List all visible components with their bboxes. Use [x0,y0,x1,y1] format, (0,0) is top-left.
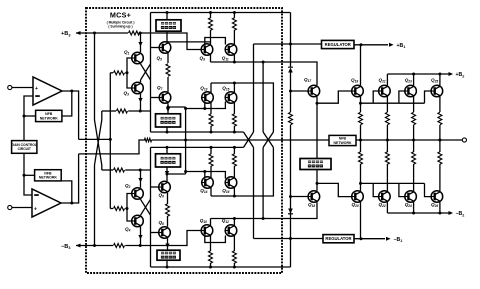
node Q17 emitter branch [316,102,319,105]
wire bias column to diode 2 [290,197,292,209]
node Q10 collector resistor [209,266,212,269]
output terminal [462,138,466,142]
node A2 output [70,202,73,205]
arrowhead -B1 [386,237,391,241]
svg-text:+: + [35,86,38,92]
node pair4 rail bias column [262,217,265,220]
wire Q18 emitter to Q20 base [317,183,352,196]
wire Q21 collector [386,74,388,85]
wire Q21 emitter [386,97,388,112]
wire A1 inverting input loop [24,96,33,141]
node Q18 emitter branch [316,182,319,185]
wire -B3 crossover to upper cascode bias [95,111,102,246]
wire Q10 collector column [210,263,212,267]
wire Q18 base [291,196,309,198]
wire Q25 emitter to rail [439,125,441,140]
wire crossover 263 upper [262,62,264,132]
node lower pair bases [126,207,129,210]
wire Q9-Q11 base link [205,38,226,46]
resistor Q24 emitter [412,152,416,164]
wire Q17 emitter to bias box right [316,103,318,158]
op-amp A2 (bottom input amplifier) [32,189,61,217]
wire Q11 emitter [233,54,235,62]
wire Q19 collector to +B1 [360,45,362,86]
node Q9 collector resistor [209,11,212,14]
wire Q25 collector [439,74,441,85]
wire input2 to op-amp A2 [12,207,32,209]
emitter arrow Q7 [166,108,170,113]
wire gain box to lower node [23,153,25,175]
node output Q23 column [412,139,415,142]
wire Q11 collector column [233,13,235,19]
wire crossover 263 lower [262,147,264,218]
node -B3 after resistor [139,244,142,247]
input terminal J1 (top) [8,85,12,89]
transistor Q14 [202,177,214,189]
wire bias box to Q6 [166,167,168,182]
node Q25 +B2 [438,73,441,76]
wire bias vertical 185.6 [185,107,187,174]
MCS+ dashed enclosure [86,8,282,273]
resistor Q22 emitter [385,152,389,164]
wire Q16 emitter [233,166,235,178]
node Q3 collector [139,110,142,113]
wire Q3 top lead [140,80,142,82]
svg-text:+: + [34,206,37,212]
node NFB2 left [23,174,26,177]
resistor Q13 emitter [209,114,213,126]
wire resistor to Q8 [167,216,169,227]
node Q16 rail C [233,146,236,149]
wire to Q3 base [127,73,132,88]
transistor Q16 [225,177,237,189]
resistor on +B3 line [129,31,140,35]
emitter arrow Q4 [138,235,142,240]
emitter arrow Q6 [165,171,169,176]
wire upper cascode bias rail [102,110,116,112]
wire Q17 base [291,90,309,92]
node pair2 rail Q15 [233,82,236,85]
node Q26 -B2 [438,212,441,215]
svg-text:NETWORK: NETWORK [39,176,58,180]
wire A2 feedback rise to NFB2 [61,181,72,203]
node base bus Q20 [359,182,362,185]
input terminal J2 (bottom) [8,205,12,209]
svg-text:NETWORK: NETWORK [40,116,59,120]
wire bias box right to Q18 emitter [316,170,318,191]
wire Q8 collector to bias box [167,238,169,250]
wire Q25 emitter [439,97,441,112]
transistor Q20 [352,191,364,203]
node upper pair bases [126,71,129,74]
wire Q16 collector [233,187,235,196]
node Q6 branch [166,173,169,176]
emitter arrow Q1 [138,42,142,47]
wire Q19 emitter to rail [360,125,362,140]
transistor Q5 [159,42,171,54]
wire upper pair base feed [110,72,113,74]
node Q2 top lead [139,169,142,172]
wire Q22 base dropper [373,183,378,196]
wire Q20 collector to -B1 [360,202,362,239]
transistor Q8 [159,227,171,239]
transistor Q22 [379,191,391,203]
transistor Q25 [431,85,443,97]
node pair3 base feed [184,170,187,173]
node bias box bottom [166,266,169,269]
transistor Q23 [405,85,417,97]
node output Q19 column [359,139,362,142]
transistor Q24 [405,191,417,203]
wire resistor to Q7 [167,77,169,92]
wire Q10-Q12 base link [205,235,226,243]
wire -B2 rail [387,212,449,214]
rail C (lower summing) [151,146,244,148]
transistor Q6 [159,181,171,193]
wire +B3 entry [76,32,128,34]
resistor upper pair base [114,71,125,75]
node -B1 takeoff [360,237,363,240]
resistor Q19 emitter [359,112,363,124]
node -B3 [93,244,96,247]
wire bias column to regulator line [290,211,292,239]
wire A2 output rise into MCS box [78,154,80,203]
transistor Q12 [225,225,237,237]
arrowhead -B2 [449,211,454,215]
wire Q13 emitter [210,102,212,114]
wire upper pair base to node [125,72,127,74]
transistor Q15 [225,92,237,104]
arrowhead +B2 [449,72,454,76]
node NFB1 left [23,115,26,118]
wire Q6 base [151,186,159,188]
wire Q20 emitter to rail [360,140,362,152]
wire bottom bus exit riser [290,239,292,268]
node rail A bias [166,131,169,134]
wire bias box bottom to bus [166,260,168,267]
wire Q11 collector [233,30,235,45]
wire -B3 entry [76,245,113,247]
bias stabilizer box right [300,159,331,170]
wire regulator top feed [254,43,322,45]
wire Q25 base riser [425,91,432,103]
wire to Q2 base [127,194,132,209]
wire -B3 to Q10 base [125,231,201,246]
node pair2 base feed [184,107,187,110]
node Q17 base [289,90,292,93]
node Q14 rail C [210,146,213,149]
wire upper cascode bias to riser [128,110,150,112]
resistor lower pair base [114,207,125,211]
wire Q5 collector to Q9 [167,41,211,43]
wire bias box mid-upper to rail A [166,127,168,132]
resistor Q20 emitter [359,152,363,164]
wire Q16 emitter to rail C [233,147,235,154]
wire Q21 base riser [373,91,378,103]
op-amp A1 (top input amplifier) [33,77,62,105]
wire Q17 emitter to Q19 base [317,91,352,103]
resistor Q21 emitter [385,112,389,124]
resistor Q9 collector [209,18,213,30]
wire crossover swap 1 [263,132,273,147]
wire Q22 collector [386,202,388,213]
wire Q12 collector [233,235,235,251]
node Q13 rail A [210,131,213,134]
wire pair4 emitter rail to Q18 [211,202,318,218]
resistor Q25 emitter [438,112,442,124]
resistor Q11 collector [232,18,236,30]
resistor rail B [144,138,151,142]
wire top supply bus [151,12,291,14]
wire Q7 branch to bias vertical [168,106,186,108]
wire pair2 base feed [186,108,205,110]
node Q24 -B2 [412,212,415,215]
wire Q26 base dropper [425,183,432,196]
wire bias box top to bus [166,13,168,20]
node +B1 takeoff [360,43,363,46]
wire Q15 emitter [233,102,235,114]
wire NFB1 left to node [24,115,36,117]
wire lower cascode bias rail [102,169,113,171]
wire regulator bottom feed [254,238,324,240]
svg-text:NETWORK: NETWORK [333,141,352,145]
resistor bias column [289,112,293,124]
svg-text:MCS+: MCS+ [110,10,131,19]
transistor Q9 [201,44,213,56]
node Q7 collector branch [167,106,170,109]
resistor Q5-Q7 [166,64,170,76]
wire Q1 emitter from +B3 node [140,33,142,52]
resistor Q23 emitter [412,112,416,124]
wire Q17 emitter [316,97,318,104]
wire Q26 collector [439,202,441,213]
wire Q4 bottom to -B3 node [140,227,142,246]
wire bias column to Q17 base node [290,73,292,92]
diode D1 (bias string) [288,68,293,73]
resistor lower cascode bias [114,168,125,172]
wire bias box top to Q5 [166,31,168,42]
wire Q14 emitter to rail C [210,147,212,154]
NFB network box right [329,135,356,145]
rail C to driver crossover [244,132,254,147]
resistor Q16 emitter [232,154,236,166]
resistor Q15 emitter [232,114,236,126]
wire A1 output drop into MCS box [78,91,80,139]
svg-text:CIRCUIT: CIRCUIT [18,147,31,151]
wire Q6 branch to bias vertical [167,173,186,175]
arrowhead +B1 [389,43,394,47]
transistor Q18 [308,191,320,203]
wire pair3 collector rail [211,147,273,196]
wire Q21 emitter to rail [386,125,388,140]
node Q15 rail A [233,131,236,134]
node Q11 collector resistor [233,11,236,14]
resistor Q12 collector [232,251,236,263]
wire Q3 collector to bias rail [140,94,142,111]
arrowhead -B3 [76,244,81,248]
wire Q15 emitter to rail A [233,126,235,132]
node +B3 after resistor [139,32,142,35]
node pair1 rail bias column [262,61,265,64]
wire Q22 emitter [386,164,388,191]
NFB network box 2 [35,170,62,181]
svg-text:REGULATOR: REGULATOR [325,236,351,241]
arrowhead +B3 [76,31,81,35]
wire bias box mid-lower to rail C [166,147,168,153]
wire Q10 collector [210,235,212,251]
node output Q25 column [438,139,441,142]
wire Q13 emitter to rail A [210,126,212,132]
wire input1 to op-amp A1 [12,87,33,89]
wire A2 inverting input loop [24,175,32,195]
wire Q14 collector [210,187,212,196]
emitter arrow Q3 [138,98,142,103]
wire Q14-Q16 base link [205,172,226,179]
wire bias column mid [290,91,292,112]
resistor Q14 emitter [209,154,213,166]
wire Q23 base riser [399,91,405,103]
wire bottom bus riser [150,147,152,267]
wire MCS drive vertical [109,73,111,209]
bias stabilizer box top [156,20,181,31]
node bias vertical on rail B [184,139,187,142]
wire bottom supply bus [151,266,291,268]
wire driver column down [253,147,255,238]
wire Q24 base dropper [399,183,405,196]
wire Q13 collector [210,83,212,93]
regulator box top [322,40,355,48]
wire Q23 collector [413,74,415,85]
NFB network box 1 [36,110,62,121]
wire Q12 collector column [233,263,235,267]
node rail C bias [166,146,169,149]
svg-text:( Summing-up ): ( Summing-up ) [108,25,132,29]
emitter arrow Q8 [165,244,169,249]
transistor Q11 [225,44,237,56]
wire Q20 emitter [360,164,362,191]
transistor Q19 [352,85,364,97]
wire Q4 top lead [140,214,142,216]
transistor Q10 [201,225,213,237]
wire NFB2 left [24,174,35,176]
resistor Q10 collector [209,251,213,263]
wire output rail [356,139,462,141]
wire Q9 collector column [210,13,212,19]
rail B output line [152,139,329,141]
wire regulator bottom output [354,238,385,240]
transistor Q17 [308,85,320,97]
wire crossover swap 2 [263,132,273,147]
wire pair1 emitter rail to Q17 [211,62,318,85]
wire lower cascode bias to riser [125,169,150,171]
node pair1 rail Q11 [233,61,236,64]
wire +B2 rail [387,73,449,75]
transistor Q4 [132,215,144,227]
wire +B3 crossover to lower cascode bias [95,33,102,170]
transistor Q2 [132,188,144,200]
regulator box bottom [323,235,354,243]
transistor Q1 [132,52,144,64]
transistor Q7 [159,92,171,104]
wire lower pair base feed [110,208,113,210]
wire bias column upper [290,44,292,68]
wire Q12 emitter [233,219,235,226]
node MCS drive junction [109,138,112,141]
wire regulator top output [354,44,388,46]
wire A1 output [62,90,79,92]
node Q23 +B2 [412,73,415,76]
wire Q23 emitter to rail [413,125,415,140]
node pair3 rail Q16 [233,195,236,198]
node regulator top bias [289,43,292,46]
wire bias column lower [290,125,292,195]
wire Q5 base [151,47,160,49]
resistor Q26 emitter [438,152,442,164]
wire lower pair base to node [125,208,127,210]
bias stabilizer box bottom [157,250,180,260]
wire Q2-Q4 crossover [141,199,151,215]
resistor Q6-Q8 [166,204,170,216]
wire Q26 emitter to rail [439,140,441,152]
wire Q14 emitter [210,166,212,178]
rail A to driver crossover [244,132,254,147]
wire Q6 emitter [167,193,169,204]
svg-text:REGULATOR: REGULATOR [325,42,351,47]
wire Q2 top lead from bias node [140,170,142,188]
bias stabilizer box mid-lower [156,154,181,167]
wire Q7 collector to bias box [167,103,169,114]
wire Q15 collector [233,83,235,93]
wire Q9 collector [210,30,212,45]
node Q18 base [289,195,292,198]
transistor Q26 [431,191,443,203]
wire top bus exit to regulator line [290,13,292,45]
diode D2 (bias string) [288,209,293,214]
wire Q23 emitter [413,97,415,112]
wire Q24 emitter [413,164,415,191]
transistor Q3 [132,82,144,94]
wire pair3 base feed [186,171,205,173]
resistor on -B3 line [114,244,125,248]
wire Q7 base [151,97,160,99]
wire driver column up [253,44,255,132]
wire Q24 collector [413,202,415,213]
wire Q13-Q15 base link [205,102,226,109]
node regulator bottom bias [289,237,292,240]
wire Q19 emitter [360,97,362,112]
wire top bus riser [150,13,152,133]
node base bus Q19 [359,102,362,105]
wire bottom base bus [361,182,425,184]
wire Q9 emitter [210,54,212,62]
node output Q21 column [386,139,389,142]
wire Q10 emitter [210,219,212,226]
node pair4 rail Q12 [233,217,236,220]
wire A2 output [61,202,79,204]
wire to Q1 base [127,58,132,73]
wire +B3 to Q9 base [140,33,201,50]
wire Q8 base [151,232,159,234]
wire top base bus [361,102,425,104]
wire Q22 emitter to rail [386,140,388,152]
wire Q24 emitter to rail [413,140,415,152]
node A1 output [70,90,73,93]
gain control circuit box [12,141,37,154]
node +B3 [93,32,96,35]
emitter arrow Q2 [138,178,142,183]
node Q14 base link [203,170,206,173]
wire A1 drive rail to node [79,138,111,140]
